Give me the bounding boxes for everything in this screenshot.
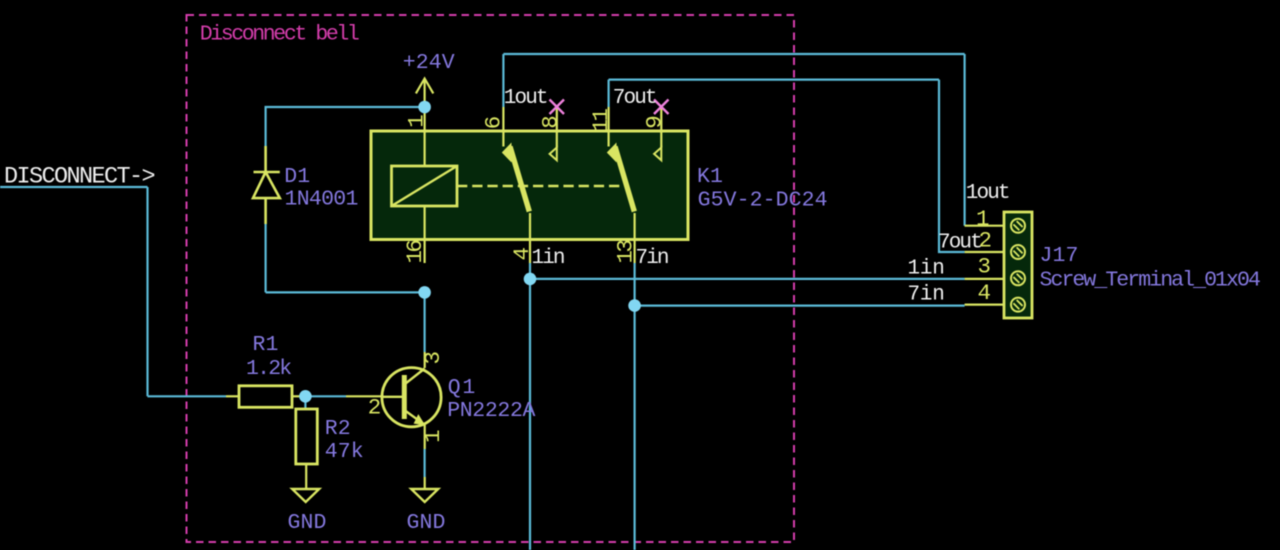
wire DISCONNECT vertical [146,187,148,396]
pin number 2 (J17) [979,227,991,253]
svg-text:2: 2 [368,395,380,421]
ground GND (Q1) [411,477,438,502]
pin number 4 [509,247,535,260]
wire junction to R2 top [304,396,306,409]
label PN2222A [447,399,535,423]
global label DISCONNECT-> [4,164,155,191]
pin number 3 (J17) [978,254,991,280]
svg-text:Disconnect bell: Disconnect bell [200,23,359,47]
wire 1out net: top horizontal [503,53,964,55]
wire D1 bottom to pin16 junction [266,291,425,293]
svg-text:9: 9 [642,117,668,129]
net label 1out at relay [504,87,547,110]
J17 pin 3 lead [965,278,1004,280]
label R2 [325,417,351,441]
label 1N4001 [285,187,358,211]
J17 pin 4 lead [965,304,1004,306]
pin number 9 [642,117,668,129]
svg-text:K1: K1 [697,165,723,189]
label GND (Q1) [407,511,446,535]
label 47k [325,440,364,464]
relay pole2 pin 13 lead [633,213,635,263]
pin number 11 [588,109,614,133]
net label 1in at relay [532,247,564,270]
svg-text:+24V: +24V [403,51,455,75]
no-connect X pin 8 [550,100,565,115]
relay coil pin 1 lead [424,107,426,166]
J17 screw 3 [1011,271,1025,285]
resistor R1 [226,386,302,408]
J17 pin 2 lead [965,251,1004,253]
svg-text:11: 11 [588,109,614,133]
pin number 6 [481,116,507,129]
wire Q1 emitter to GND [424,449,426,477]
graphic box Disconnect bell [187,15,795,542]
junction at relay pin16 [418,286,431,299]
J17 screw 4 [1011,298,1025,312]
relay coil pin 16 lead [424,206,426,263]
label J17 [1040,244,1079,268]
J17 pin 1 lead [965,225,1004,227]
relay pole1 pin 4 lead [529,213,531,263]
connector J17 body [1004,212,1032,318]
wire 1out net: relay pin6 up [502,54,504,107]
svg-text:PN2222A: PN2222A [447,399,535,423]
net label 7out at relay [613,87,656,110]
svg-text:1out: 1out [966,182,1009,205]
relay K1 coil [392,166,458,206]
wire 7out net: relay pin11 up [607,80,609,107]
svg-text:J17: J17 [1040,244,1079,268]
svg-text:7out: 7out [938,231,981,254]
wire 7out net: down to J17 pin2 [939,80,965,252]
relay K1 body [371,131,688,240]
label R1 [253,333,279,357]
svg-text:1.2k: 1.2k [246,357,291,381]
svg-text:16: 16 [402,240,428,264]
net label 1out at J17 [966,182,1009,205]
svg-text:G5V-2-DC24: G5V-2-DC24 [698,188,828,212]
wire junction to Q1 collector [424,292,426,352]
svg-text:DISCONNECT->: DISCONNECT-> [4,164,155,191]
relay pole1 contact pin 8 [550,107,557,160]
relay pole2 pin 11 lead [607,107,609,147]
label K1 [697,165,723,189]
junction at +24V [418,101,431,114]
junction 1in [524,273,537,286]
svg-text:7in: 7in [636,247,668,270]
pin number 16 [402,240,428,264]
label Q1 [448,376,477,400]
net label 1in at J17 [908,258,945,281]
pin number 2 (Q1 base) [368,395,380,421]
svg-text:GND: GND [407,511,446,535]
svg-text:R1: R1 [253,333,279,357]
relay pole1 blade [502,143,530,212]
svg-text:Screw_Terminal_01x04: Screw_Terminal_01x04 [1040,269,1260,293]
J17 screw 2 [1011,245,1025,259]
svg-text:47k: 47k [325,440,364,464]
label Screw_Terminal_01x04 [1040,269,1260,293]
diode D1 [253,146,280,224]
wire 1in net: relay pin4 down [529,263,531,550]
pin number 3 (Q1 collector) [420,351,446,364]
transistor Q1 [346,352,441,449]
label D1 [284,165,310,189]
label +24V [403,51,455,75]
junction 7in [628,299,641,312]
svg-text:R2: R2 [325,417,351,441]
wire D1 bottom down [265,224,267,292]
net label 7out at J17 [938,231,981,254]
svg-text:1in: 1in [908,258,945,281]
label 1.2k [246,357,291,381]
svg-text:7in: 7in [908,284,945,307]
wire 1out net: down to J17 pin1 [963,54,965,226]
pin number 13 [612,240,638,264]
svg-text:1in: 1in [532,247,564,270]
no-connect X pin 9 [654,100,669,115]
svg-text:13: 13 [612,240,638,264]
wire to R1 [148,395,227,397]
wire R1 to Q1 base [302,395,346,397]
wire 1in net: horizontal to J17 pin3 [530,278,965,280]
wire 7out net: horizontal [609,78,939,80]
pin number 1 (Q1 emitter) [420,430,446,443]
svg-text:1N4001: 1N4001 [285,187,358,211]
pin number 4 (J17) [978,280,991,306]
text Disconnect bell [200,23,359,47]
relay dashed link [457,185,622,187]
relay pole2 blade [607,143,635,212]
resistor R2 [296,409,318,489]
wire 7in net: horizontal to J17 pin4 [635,305,965,307]
svg-text:7out: 7out [613,87,656,110]
pin number 1 [403,115,429,128]
svg-text:GND: GND [288,511,327,535]
net label 7in at relay [636,247,668,270]
wire DISCONNECT horizontal [0,186,148,188]
label GND (R2) [288,511,327,535]
wire +24V to D1 top [266,107,425,146]
svg-text:D1: D1 [284,165,310,189]
net label 7in at J17 [908,284,945,307]
J17 screw 1 [1011,219,1025,233]
relay pole2 contact pin 9 [654,107,661,160]
label G5V-2-DC24 [698,188,828,212]
relay pole1 pin 6 lead [502,107,504,147]
ground GND (R2) [292,489,319,502]
pin number 1 (J17) [976,206,989,232]
pin number 8 [538,116,564,129]
junction at R1/R2/Q1 base [299,390,312,403]
svg-text:1out: 1out [504,87,547,110]
wire 7in net: relay pin13 down [633,263,635,550]
power symbol +24V [416,79,433,108]
svg-text:Q1: Q1 [448,376,477,400]
